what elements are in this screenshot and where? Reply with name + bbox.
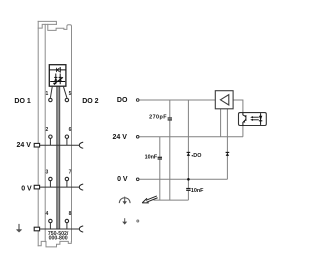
- svg-text:2: 2: [46, 127, 49, 133]
- svg-text:4: 4: [46, 211, 49, 217]
- svg-text:10nF: 10nF: [145, 154, 158, 160]
- svg-text:DO 2: DO 2: [82, 98, 98, 105]
- svg-text:3: 3: [46, 169, 49, 175]
- svg-text:000-800: 000-800: [49, 235, 68, 241]
- svg-text:0 V: 0 V: [117, 176, 128, 183]
- svg-text:1: 1: [46, 91, 49, 97]
- svg-text:6: 6: [69, 127, 72, 133]
- svg-text:8: 8: [69, 211, 72, 217]
- svg-text:24 V: 24 V: [113, 134, 128, 141]
- svg-text:10nF: 10nF: [191, 188, 204, 194]
- svg-text:DO: DO: [117, 97, 128, 104]
- svg-text:DO 1: DO 1: [14, 98, 30, 105]
- svg-text:DO: DO: [193, 153, 201, 159]
- svg-text:7: 7: [69, 169, 72, 175]
- svg-text:270pF: 270pF: [149, 114, 167, 120]
- svg-text:0 V: 0 V: [21, 185, 32, 192]
- svg-text:5: 5: [69, 91, 72, 97]
- svg-text:24 V: 24 V: [17, 142, 32, 149]
